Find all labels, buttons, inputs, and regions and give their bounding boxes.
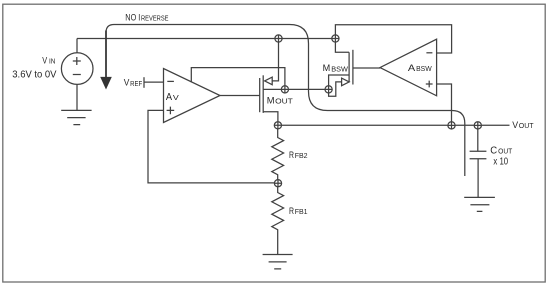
svg-text:A: A — [166, 92, 173, 103]
svg-text:NO I: NO I — [125, 12, 140, 23]
wire VIN bottom to ground — [76, 85, 78, 111]
wire bulk net MOUT to MBSW — [263, 88, 328, 90]
wire AV top to bulk node — [191, 68, 285, 90]
junction rail-MOUT drain — [275, 35, 282, 42]
junction MOUT source VOUT node — [274, 122, 281, 129]
ground (COUT) — [464, 197, 495, 211]
op-amp AV — [164, 69, 221, 123]
svg-text:V: V — [173, 93, 179, 102]
transistor MOUT — [260, 39, 279, 126]
label NO IREVERSE — [125, 12, 168, 23]
svg-text:3.6V to 0V: 3.6V to 0V — [12, 70, 57, 81]
capacitor COUT — [470, 125, 487, 197]
junction bulk net at MBSW — [325, 86, 332, 93]
wire ABSW minus input loop — [335, 25, 451, 53]
wire ABSW plus input to VOUT node — [437, 84, 452, 125]
svg-text:OUT: OUT — [519, 121, 534, 130]
label MBSW — [323, 63, 349, 73]
svg-text:x 10: x 10 — [493, 156, 508, 167]
junction bulk net at MOUT — [281, 86, 288, 93]
transistor MBSW — [329, 39, 353, 97]
wire VIN rail — [77, 38, 335, 40]
ground (RFB1) — [263, 255, 293, 269]
resistor RFB1 — [272, 183, 284, 254]
wire AV output to MOUT gate — [220, 95, 260, 97]
wire MBSW gate to ABSW output — [353, 67, 380, 69]
voltage source VIN — [61, 53, 93, 85]
svg-text:REF: REF — [130, 79, 142, 88]
op-amp ABSW — [380, 39, 437, 96]
label RFB1 — [289, 206, 308, 216]
terminal VREF — [143, 77, 145, 88]
label MOUT — [267, 95, 293, 106]
svg-text:A: A — [408, 63, 416, 74]
svg-text:BSW: BSW — [416, 64, 432, 73]
svg-text:FB2: FB2 — [295, 151, 308, 160]
svg-text:FB1: FB1 — [295, 207, 308, 216]
junction rail-MBSW drain — [332, 35, 339, 42]
svg-text:M: M — [267, 95, 275, 106]
junction COUT at VOUT — [474, 122, 481, 129]
wire VREF to AV minus input — [144, 81, 164, 83]
junction feedback divider tap — [274, 180, 281, 187]
svg-text:V: V — [512, 120, 518, 130]
svg-text:V: V — [124, 78, 130, 88]
label VIN — [42, 55, 55, 65]
svg-text:C: C — [490, 145, 497, 156]
label VOUT — [512, 120, 534, 130]
svg-text:R: R — [289, 150, 294, 160]
resistor RFB2 — [272, 125, 284, 183]
svg-text:OUT: OUT — [498, 146, 513, 155]
svg-text:M: M — [323, 63, 331, 73]
svg-text:IN: IN — [49, 59, 55, 66]
ground (VIN) — [61, 110, 91, 124]
svg-text:REVERSE: REVERSE — [141, 14, 169, 23]
no-reverse current arrowhead — [100, 77, 112, 90]
svg-text:BSW: BSW — [331, 64, 349, 73]
wire VIN top to rail — [76, 39, 78, 53]
wire VOUT line — [278, 124, 510, 126]
svg-text:OUT: OUT — [275, 97, 293, 106]
junction ABSW plus at VOUT — [448, 122, 455, 129]
label COUT — [490, 145, 513, 156]
svg-text:R: R — [289, 206, 294, 216]
label VREF — [124, 78, 143, 88]
svg-text:V: V — [42, 55, 48, 65]
label RFB2 — [289, 150, 308, 160]
wire AV plus input feedback from divider — [148, 110, 278, 182]
no-reverse current arrow shaft — [105, 31, 107, 78]
wire NO IREVERSE routing — [106, 25, 465, 177]
